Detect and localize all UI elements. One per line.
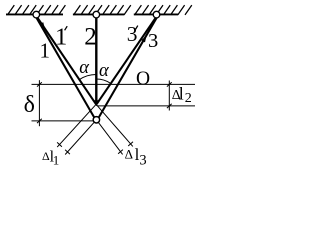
tick at end of apex-left construction line: [57, 142, 62, 146]
rod 1' (deformed position, pin 1 to joint circle): [36, 16, 95, 117]
arrowhead at bottom of rod 2: [93, 100, 99, 106]
svg-text:l: l: [179, 84, 184, 104]
svg-text:α: α: [99, 61, 110, 81]
ceiling hatching left segment: [8, 5, 66, 15]
prime mark of label 1': [65, 26, 68, 30]
angle arc alpha right: [96, 79, 110, 83]
svg-text:α: α: [79, 58, 90, 78]
construction line from apex down-right to delta-l3 tick: [96, 105, 133, 147]
svg-text:2: 2: [84, 23, 97, 50]
rod 3 (original position, pin 3 to apex): [97, 17, 157, 105]
angle arc alpha left: [79, 75, 96, 80]
delta dimension bottom tick: [37, 119, 42, 123]
level line through O (top reference): [32, 83, 196, 85]
svg-text:1: 1: [55, 24, 67, 51]
arrowhead on rod 1 near pin 1: [40, 22, 45, 28]
construction line from joint down-left to delta-l1 tick: [65, 120, 96, 155]
tick at end of joint-left construction line: [65, 150, 70, 154]
svg-text:1: 1: [40, 39, 51, 63]
svg-text:δ: δ: [24, 92, 35, 118]
rod 2 (vertical middle rod): [95, 17, 97, 101]
ceiling line left segment: [6, 13, 63, 15]
delta-l2 dimension top tick: [167, 82, 172, 86]
delta-l2 dimension vertical line: [168, 81, 170, 111]
delta dimension vertical line: [38, 80, 40, 126]
prime mark of label 3': [136, 26, 138, 30]
rod 3' (deformed position, pin 3 to joint circle): [99, 17, 157, 118]
pin 3 (right hinge): [153, 11, 160, 18]
ceiling line middle segment: [73, 13, 124, 15]
svg-text:Δ: Δ: [125, 147, 133, 162]
arrowhead on rod 3' near label 3: [141, 35, 146, 42]
svg-text:3: 3: [127, 22, 138, 46]
tick at end of joint-right construction line: [118, 150, 123, 154]
joint circle O' (displaced junction): [93, 117, 99, 123]
construction line from joint down-right to delta-l3 tick: [96, 120, 122, 155]
delta dimension top tick: [37, 82, 42, 86]
svg-text:O: O: [136, 69, 150, 90]
tick at end of apex-right construction line: [128, 142, 133, 146]
ceiling line right segment: [134, 13, 178, 15]
construction line from apex down-left to delta-l1 tick: [57, 105, 96, 148]
svg-text:3: 3: [148, 30, 158, 52]
svg-text:3: 3: [139, 153, 146, 165]
svg-text:1: 1: [53, 153, 60, 165]
pin 2 (middle hinge): [93, 11, 100, 18]
level line lower-left (through O' to delta dim): [32, 120, 94, 122]
level line lower-right (from apex to delta-l2 dim): [98, 105, 196, 107]
svg-text:2: 2: [185, 91, 192, 106]
pin 1 (left hinge): [33, 11, 40, 18]
ceiling hatching middle segment: [74, 5, 131, 15]
ceiling hatching right segment: [135, 5, 192, 15]
rod 1 (original position, pin 1 to apex): [36, 16, 96, 104]
delta-l2 dimension bottom tick: [167, 104, 172, 108]
